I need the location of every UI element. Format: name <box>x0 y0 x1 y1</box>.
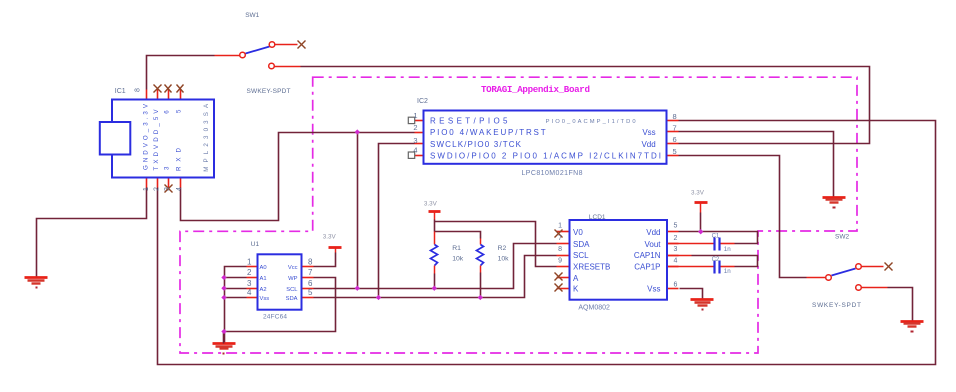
svg-text:A0: A0 <box>260 265 267 271</box>
svg-text:LPC810M021FN8: LPC810M021FN8 <box>522 170 583 177</box>
svg-text:RXD: RXD <box>175 147 182 171</box>
svg-text:1: 1 <box>143 187 150 191</box>
svg-text:4: 4 <box>176 187 183 191</box>
svg-text:SCL: SCL <box>573 251 589 260</box>
svg-text:9: 9 <box>558 257 562 264</box>
svg-text:TORAGI_Appendix_Board: TORAGI_Appendix_Board <box>481 84 590 95</box>
svg-text:K: K <box>573 285 579 294</box>
svg-text:SDA: SDA <box>573 240 590 249</box>
svg-text:7: 7 <box>673 124 677 133</box>
svg-text:U1: U1 <box>251 241 260 248</box>
svg-text:CAP1N: CAP1N <box>634 251 661 260</box>
svg-text:8: 8 <box>135 88 142 92</box>
svg-text:8: 8 <box>558 246 562 253</box>
svg-text:SWKEY-SPDT: SWKEY-SPDT <box>247 88 291 95</box>
svg-text:3: 3 <box>247 279 252 288</box>
svg-text:R1: R1 <box>452 245 461 252</box>
svg-text:A1: A1 <box>260 276 267 282</box>
svg-text:2: 2 <box>674 235 678 242</box>
svg-text:5: 5 <box>674 223 678 230</box>
svg-text:C1: C1 <box>712 233 720 239</box>
svg-text:SCL: SCL <box>286 287 298 293</box>
svg-text:6: 6 <box>674 282 678 289</box>
svg-text:1n: 1n <box>724 268 731 275</box>
svg-text:5: 5 <box>673 147 677 156</box>
svg-text:3.3V: 3.3V <box>323 234 337 241</box>
svg-text:3: 3 <box>164 166 171 170</box>
svg-text:10k: 10k <box>498 256 510 263</box>
svg-text:10k: 10k <box>452 256 464 263</box>
svg-text:PIO0 4/WAKEUP/TRST: PIO0 4/WAKEUP/TRST <box>430 128 546 137</box>
svg-text:1: 1 <box>247 257 252 266</box>
svg-text:Vout: Vout <box>644 240 661 249</box>
svg-text:2: 2 <box>153 187 160 191</box>
svg-text:SWKEY-SPDT: SWKEY-SPDT <box>812 302 861 309</box>
svg-text:7: 7 <box>558 235 562 242</box>
svg-text:2: 2 <box>247 268 252 277</box>
svg-text:8: 8 <box>673 112 677 121</box>
svg-text:1: 1 <box>413 111 417 120</box>
svg-text:IC1: IC1 <box>115 88 126 95</box>
svg-text:1: 1 <box>558 223 562 230</box>
svg-text:SW2: SW2 <box>835 234 849 241</box>
svg-text:Vss: Vss <box>642 128 655 137</box>
svg-text:Vdd: Vdd <box>641 140 655 149</box>
svg-text:7: 7 <box>308 268 313 277</box>
svg-text:C2: C2 <box>712 257 720 263</box>
svg-text:LCD1: LCD1 <box>589 214 606 221</box>
svg-text:3: 3 <box>674 246 678 253</box>
svg-text:SDA: SDA <box>286 296 298 302</box>
svg-text:4: 4 <box>674 257 678 264</box>
svg-text:SWCLK/PIO0 3/TCK: SWCLK/PIO0 3/TCK <box>430 140 522 149</box>
svg-text:TXDVDD_5V: TXDVDD_5V <box>153 109 160 171</box>
svg-text:3.3V: 3.3V <box>691 190 705 197</box>
svg-text:4: 4 <box>413 146 417 155</box>
svg-text:Vdd: Vdd <box>646 228 660 237</box>
svg-text:GNDVO_3.3V: GNDVO_3.3V <box>143 103 150 170</box>
svg-text:AQM0802: AQM0802 <box>578 305 610 312</box>
svg-text:V0: V0 <box>573 228 583 237</box>
svg-text:8: 8 <box>308 257 313 266</box>
svg-text:A: A <box>573 274 579 283</box>
svg-text:R2: R2 <box>498 245 507 252</box>
svg-text:MPL2303SA: MPL2303SA <box>203 103 210 172</box>
svg-text:RESET/PIO5: RESET/PIO5 <box>430 117 508 126</box>
svg-text:4: 4 <box>247 288 252 297</box>
svg-text:Vss: Vss <box>260 296 270 302</box>
svg-text:WP: WP <box>288 276 297 282</box>
svg-text:3.3V: 3.3V <box>424 201 438 208</box>
svg-text:5: 5 <box>175 109 182 113</box>
svg-text:24FC64: 24FC64 <box>263 313 287 320</box>
svg-text:6: 6 <box>673 135 677 144</box>
svg-text:6: 6 <box>164 110 171 114</box>
svg-text:3: 3 <box>164 187 171 191</box>
svg-text:Vss: Vss <box>647 285 660 294</box>
svg-text:SW1: SW1 <box>245 12 259 19</box>
svg-text:CAP1P: CAP1P <box>634 263 660 272</box>
svg-text:5: 5 <box>308 288 313 297</box>
svg-text:XRESETB: XRESETB <box>573 263 610 272</box>
svg-text:PIO0_0ACMP_I1/TD0: PIO0_0ACMP_I1/TD0 <box>546 119 636 125</box>
svg-text:6: 6 <box>308 279 313 288</box>
svg-text:IC2: IC2 <box>417 98 428 105</box>
svg-text:Vcc: Vcc <box>288 265 298 271</box>
svg-text:1n: 1n <box>724 246 731 253</box>
svg-text:A2: A2 <box>260 287 267 293</box>
svg-text:2: 2 <box>413 123 417 132</box>
svg-text:SWDIO/PIO0 2 PIO0 1/ACMP I: SWDIO/PIO0 2 PIO0 1/ACMP I2/CLKIN7TDI <box>430 151 661 160</box>
svg-text:3: 3 <box>413 136 417 145</box>
